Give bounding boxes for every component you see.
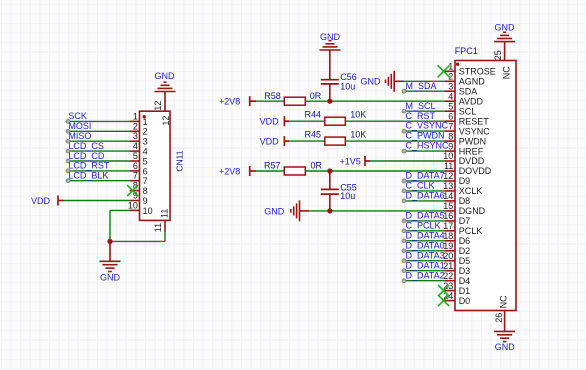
svg-text:D4: D4	[459, 276, 471, 286]
designator C55	[340, 182, 357, 192]
resistor R45	[325, 137, 346, 145]
FPC1 pin 20	[443, 251, 470, 266]
svg-text:17: 17	[443, 221, 453, 231]
CN11 pin 1	[130, 111, 148, 126]
value 10K (R45)	[350, 130, 366, 140]
svg-text:D_DATA0: D_DATA0	[406, 240, 445, 250]
power port +1V5	[340, 156, 370, 167]
svg-text:HREF: HREF	[459, 146, 484, 156]
svg-text:C_RST: C_RST	[406, 111, 436, 121]
FPC1 pin 14	[443, 191, 470, 206]
svg-text:SCL: SCL	[459, 106, 477, 116]
svg-text:20: 20	[443, 251, 453, 261]
svg-text:12: 12	[161, 116, 171, 126]
svg-text:9: 9	[143, 196, 148, 206]
FPC1 pin 7	[445, 121, 491, 136]
net label D_DATA0	[406, 240, 445, 250]
svg-text:7: 7	[143, 176, 148, 186]
junction (DOVDD/C55)	[327, 168, 332, 173]
net label C_PCLK	[406, 220, 441, 230]
svg-text:6: 6	[448, 111, 453, 121]
svg-text:2: 2	[143, 127, 148, 137]
svg-text:+2V8: +2V8	[219, 97, 240, 107]
CN11 pin 4	[130, 141, 148, 156]
svg-text:+1V5: +1V5	[340, 157, 361, 167]
FPC1 pin 16	[443, 211, 470, 226]
svg-text:4: 4	[448, 91, 453, 101]
wire pin 11 down	[164, 232, 166, 242]
ground GND (below CN11)	[100, 241, 121, 282]
svg-text:LCD_RST: LCD_RST	[68, 161, 110, 171]
value 0R (R57)	[311, 161, 323, 171]
svg-text:LCD_BLK: LCD_BLK	[68, 171, 108, 181]
svg-text:4: 4	[143, 147, 148, 157]
svg-text:SDA: SDA	[459, 86, 478, 96]
svg-text:10K: 10K	[350, 110, 366, 120]
net label D_DATA2	[406, 270, 445, 280]
svg-text:C_PCLK: C_PCLK	[406, 220, 441, 230]
svg-text:2: 2	[133, 121, 138, 131]
CN11 pin 9	[130, 191, 148, 206]
pin name NC top (rotated)	[502, 66, 512, 79]
svg-text:25: 25	[493, 50, 503, 60]
svg-text:DGND: DGND	[459, 206, 486, 216]
wire net SCK	[66, 120, 130, 124]
power port +2V8 (R57 row)	[219, 166, 256, 177]
FPC1 pin 2	[445, 72, 486, 87]
svg-text:FPC1: FPC1	[455, 46, 478, 56]
FPC1 pin 17	[443, 221, 482, 236]
designator FPC1	[455, 46, 478, 56]
net label C_PWDN	[406, 131, 445, 141]
svg-text:PCLK: PCLK	[459, 226, 483, 236]
wire +1V5 to pin 10	[370, 160, 445, 162]
svg-text:D9: D9	[459, 176, 471, 186]
FPC1 pin 3	[445, 81, 478, 96]
pin name 11 (inside, rotated)	[160, 209, 170, 218]
power port VDD	[31, 196, 64, 206]
FPC1 pin 12	[443, 171, 470, 186]
svg-text:12: 12	[153, 101, 163, 111]
junction (CN11 ground net)	[107, 239, 112, 244]
svg-text:26: 26	[494, 313, 504, 323]
pin number 11 (CN11 outside)	[153, 223, 163, 232]
net label C_VSYNC	[406, 121, 449, 131]
wire net LCD_CS	[66, 149, 130, 153]
svg-text:NC: NC	[502, 66, 512, 79]
FPC1 pin 11	[444, 161, 492, 176]
pin name NC bottom (rotated)	[498, 295, 508, 308]
net label D_DATA4	[406, 230, 445, 240]
svg-text:16: 16	[443, 211, 453, 221]
svg-text:STROSE: STROSE	[459, 67, 496, 77]
power port GND (above C56)	[320, 32, 341, 50]
net label LCD_BLK	[68, 171, 108, 181]
svg-text:8: 8	[143, 186, 148, 196]
FPC1 pin 6	[445, 111, 490, 126]
CN11 pin 5	[130, 151, 148, 166]
no-connect X on FPC1 pin 23	[438, 285, 449, 296]
svg-text:11: 11	[444, 161, 453, 171]
wire net M_SDA	[402, 89, 445, 93]
wire +2V8 to R58	[256, 100, 284, 102]
svg-text:D0: D0	[459, 296, 471, 306]
CN11 pin 2	[130, 121, 148, 136]
wire VDD to pin 9	[64, 200, 130, 202]
connector FPC1 body	[455, 61, 516, 311]
FPC1 pin 1	[445, 62, 496, 77]
svg-text:5: 5	[133, 151, 138, 161]
wire net C_PCLK	[402, 229, 445, 233]
wire VDD to R44	[289, 120, 325, 122]
FPC1 pin 19	[443, 241, 470, 256]
wire R57 to pin 11	[305, 170, 444, 172]
svg-text:1: 1	[143, 117, 148, 127]
net label M_SCL	[406, 101, 436, 111]
FPC1 pin 1 marker dot	[456, 62, 459, 65]
svg-text:D3: D3	[459, 266, 471, 276]
svg-text:AVDD: AVDD	[459, 96, 484, 106]
svg-text:D2: D2	[459, 246, 471, 256]
svg-text:D_DATA6: D_DATA6	[406, 191, 445, 201]
wire R45 to pin 8	[345, 140, 444, 142]
svg-text:VDD: VDD	[260, 137, 280, 147]
net label C_RST	[406, 111, 436, 121]
value 10u (C56)	[340, 82, 355, 92]
svg-text:+2V8: +2V8	[219, 167, 240, 177]
CN11 pin 8	[130, 181, 148, 196]
svg-text:12: 12	[443, 171, 453, 181]
net label C_CLK	[406, 181, 435, 191]
FPC1 pin 22	[443, 271, 470, 286]
svg-text:5: 5	[143, 156, 148, 166]
net label D_DATA3	[406, 250, 445, 260]
wire net D_DATA5	[402, 219, 445, 223]
svg-text:7: 7	[133, 171, 138, 181]
svg-text:MISO: MISO	[68, 131, 91, 141]
wire net C_CLK	[402, 189, 445, 193]
svg-text:R58: R58	[264, 91, 281, 101]
connector CN11 body	[140, 111, 171, 220]
CN11 pin 10	[128, 200, 153, 215]
svg-text:11: 11	[160, 209, 170, 218]
wire GND to pin 15	[309, 210, 445, 212]
svg-text:VDD: VDD	[260, 117, 280, 127]
wire net C_VSYNC	[402, 129, 445, 133]
wire net D_DATA1	[402, 269, 445, 273]
FPC1 pin 5	[445, 101, 477, 116]
svg-text:D1: D1	[459, 286, 471, 296]
svg-text:MOSI: MOSI	[68, 121, 91, 131]
CN11 pin 7	[130, 171, 148, 186]
svg-text:GND: GND	[155, 71, 176, 81]
ground GND (AGND, pin 2)	[361, 71, 404, 92]
wire VDD to R45	[289, 140, 325, 142]
no-connect X on FPC1 pin 24	[438, 295, 449, 306]
svg-text:19: 19	[443, 241, 453, 251]
FPC1 pin 25 stem	[504, 42, 506, 61]
net label LCD_RST	[68, 161, 110, 171]
svg-text:GND: GND	[100, 273, 121, 283]
svg-text:PWDN: PWDN	[459, 136, 487, 146]
net label LCD_CS	[68, 141, 104, 151]
wire net LCD_CD	[66, 159, 130, 163]
svg-text:D7: D7	[459, 216, 471, 226]
svg-text:0R: 0R	[310, 91, 322, 101]
wire R58 to pin 4	[305, 100, 444, 102]
resistor R44	[325, 117, 346, 125]
resistor R58	[284, 97, 305, 105]
svg-text:0R: 0R	[311, 161, 323, 171]
value 10K (R44)	[350, 110, 366, 120]
pin number 26 (rotated)	[494, 313, 504, 323]
FPC1 pin 15	[443, 201, 485, 216]
power port GND (top of FPC1, pin 25)	[494, 22, 515, 41]
FPC1 pin 26 stem	[504, 311, 506, 332]
svg-text:10: 10	[128, 200, 138, 210]
svg-text:D_DATA7: D_DATA7	[406, 171, 445, 181]
svg-text:D8: D8	[459, 196, 471, 206]
designator R57	[264, 161, 281, 171]
svg-text:3: 3	[143, 137, 148, 147]
svg-text:M_SCL: M_SCL	[406, 101, 436, 111]
wire net D_DATA6	[402, 199, 445, 203]
FPC1 pin 23	[443, 281, 470, 296]
svg-text:GND: GND	[361, 77, 382, 87]
FPC1 pin 13	[443, 181, 482, 196]
wire net LCD_BLK	[66, 179, 130, 183]
FPC1 pin 9	[445, 141, 484, 156]
wire R44 to pin 6	[345, 120, 444, 122]
net label SCK	[68, 111, 87, 121]
svg-text:DVDD: DVDD	[459, 156, 485, 166]
power port +2V8 (R58 row)	[219, 96, 256, 107]
CN11 pin 6	[130, 161, 148, 176]
svg-text:C56: C56	[340, 72, 357, 82]
svg-text:D_DATA4: D_DATA4	[406, 230, 445, 240]
FPC1 pin 24	[443, 291, 470, 306]
net label D_DATA6	[406, 191, 445, 201]
svg-text:R45: R45	[305, 130, 322, 140]
svg-text:LCD_CS: LCD_CS	[68, 141, 104, 151]
value 10u (C55)	[340, 191, 355, 201]
FPC1 pin 4	[445, 91, 484, 106]
svg-text:C_CLK: C_CLK	[406, 181, 435, 191]
wire net D_DATA7	[402, 179, 445, 183]
svg-text:M_SDA: M_SDA	[406, 81, 437, 91]
svg-text:21: 21	[443, 261, 453, 271]
svg-text:5: 5	[448, 101, 453, 111]
svg-text:XCLK: XCLK	[459, 186, 483, 196]
svg-text:7: 7	[448, 121, 453, 131]
wire net M_SCL	[402, 109, 445, 113]
no-connect X on CN11 pin 8	[127, 185, 138, 196]
svg-text:22: 22	[443, 271, 453, 281]
net label D_DATA7	[406, 171, 445, 181]
svg-text:AGND: AGND	[459, 77, 486, 87]
junction (DGND/C55)	[327, 208, 332, 213]
svg-text:1: 1	[133, 111, 138, 121]
wire net MOSI	[66, 129, 130, 133]
FPC1 pin 8	[445, 131, 487, 146]
no-connect X on FPC1 pin 1	[438, 65, 450, 77]
svg-text:C_HSYNC: C_HSYNC	[406, 141, 450, 151]
svg-text:3: 3	[448, 81, 453, 91]
net label D_DATA5	[406, 211, 445, 221]
svg-text:C_PWDN: C_PWDN	[406, 131, 445, 141]
svg-text:6: 6	[133, 161, 138, 171]
svg-text:R44: R44	[305, 110, 322, 120]
net label M_SDA	[406, 81, 437, 91]
svg-text:C_VSYNC: C_VSYNC	[406, 121, 449, 131]
designator R58	[264, 91, 281, 101]
wire +2V8 to R57	[256, 170, 284, 172]
wire pin12 stem	[164, 92, 166, 112]
svg-text:GND: GND	[495, 22, 516, 32]
pin number 12 (CN11 outside)	[153, 101, 163, 111]
wire net D_DATA3	[402, 259, 445, 263]
svg-text:4: 4	[133, 141, 138, 151]
pin 1 marker dot	[143, 115, 146, 118]
svg-text:9: 9	[448, 141, 453, 151]
svg-text:SCK: SCK	[68, 111, 87, 121]
wire pin 10 to ground net	[110, 210, 130, 241]
svg-text:11: 11	[153, 223, 163, 232]
svg-text:D6: D6	[459, 236, 471, 246]
wire GND to C56	[329, 50, 331, 80]
capacitor C55	[321, 171, 339, 211]
power port VDD (R44 row)	[260, 116, 289, 127]
net label D_DATA1	[406, 260, 445, 270]
svg-text:CN11: CN11	[175, 150, 185, 171]
svg-text:10u: 10u	[340, 82, 355, 92]
CN11 pin 11 stem	[164, 220, 166, 231]
wire net D_DATA4	[402, 239, 445, 243]
ground GND (below FPC1)	[494, 331, 515, 352]
svg-text:GND: GND	[495, 342, 516, 352]
capacitor C56	[321, 80, 339, 102]
designator R44	[305, 110, 322, 120]
junction (AVDD/C56)	[327, 99, 332, 104]
svg-text:18: 18	[443, 231, 453, 241]
svg-text:NC: NC	[498, 295, 508, 308]
svg-text:DOVDD: DOVDD	[459, 166, 492, 176]
svg-text:10: 10	[143, 206, 153, 216]
wire net LCD_RST	[66, 169, 130, 173]
pin number 25 (rotated)	[493, 50, 503, 60]
svg-text:D5: D5	[459, 256, 471, 266]
svg-text:RESET: RESET	[459, 116, 490, 126]
power port GND (top, CN11 pin 12)	[155, 71, 176, 91]
wire net D_DATA0	[402, 249, 445, 253]
value 0R (R58)	[310, 91, 322, 101]
wire net D_DATA2	[402, 279, 445, 283]
CN11 pin 3	[130, 131, 148, 146]
svg-text:LCD_CD: LCD_CD	[68, 151, 105, 161]
wire AGND	[404, 80, 445, 82]
net label MOSI	[68, 121, 91, 131]
designator CN11	[175, 150, 185, 171]
designator R45	[305, 130, 322, 140]
svg-text:R57: R57	[264, 161, 281, 171]
svg-text:10u: 10u	[340, 191, 355, 201]
svg-text:13: 13	[443, 181, 453, 191]
designator C56	[340, 72, 357, 82]
ground GND (DGND row)	[264, 200, 309, 221]
svg-text:D_DATA5: D_DATA5	[406, 211, 445, 221]
svg-text:15: 15	[443, 201, 453, 211]
FPC1 pin 21	[443, 261, 470, 276]
resistor R57	[284, 167, 305, 175]
svg-text:10: 10	[443, 151, 453, 161]
svg-text:10K: 10K	[350, 130, 366, 140]
svg-text:6: 6	[143, 166, 148, 176]
svg-text:D_DATA1: D_DATA1	[406, 260, 445, 270]
svg-text:D_DATA3: D_DATA3	[406, 250, 445, 260]
wire net MISO	[66, 139, 130, 143]
net label C_HSYNC	[406, 141, 450, 151]
wire net C_HSYNC	[402, 149, 445, 153]
FPC1 pin 10	[443, 151, 484, 166]
power port VDD (R45 row)	[260, 136, 289, 147]
svg-text:8: 8	[448, 131, 453, 141]
wire pin 11 to junction	[110, 240, 165, 242]
net label LCD_CD	[68, 151, 105, 161]
svg-text:D_DATA2: D_DATA2	[406, 270, 445, 280]
pin name 12 (inside, rotated)	[161, 116, 171, 126]
net label MISO	[68, 131, 91, 141]
FPC1 pin 18	[443, 231, 470, 246]
svg-text:GND: GND	[264, 206, 285, 216]
svg-text:VDD: VDD	[31, 196, 51, 206]
svg-text:14: 14	[443, 191, 453, 201]
svg-text:3: 3	[133, 131, 138, 141]
svg-text:VSYNC: VSYNC	[459, 126, 491, 136]
